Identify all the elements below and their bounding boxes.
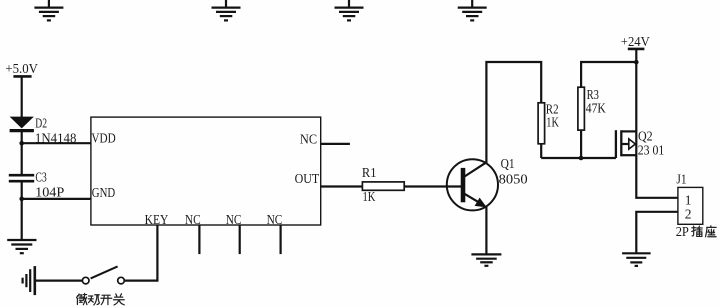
svg-text:1: 1: [685, 192, 692, 207]
wire R3 top: [581, 62, 636, 87]
svg-text:2: 2: [685, 206, 692, 221]
ground G6 (emitter): [471, 254, 501, 265]
svg-text:2P: 2P: [676, 224, 689, 239]
wire NC pin 3 (bottom): [280, 225, 282, 254]
wire +5V stem: [21, 76, 23, 117]
svg-text:GND: GND: [92, 185, 116, 200]
wire GND: [22, 198, 91, 200]
ground G7 (J1): [622, 253, 651, 266]
node gate junction: [579, 156, 584, 161]
svg-text:NC: NC: [185, 212, 201, 227]
node VDD junction: [19, 141, 24, 146]
ground GT1 (top): [34, 0, 63, 20]
label 2P插座: [676, 224, 716, 239]
wire +24V rail to J1 pin1: [636, 49, 678, 198]
svg-text:NC: NC: [267, 212, 283, 227]
power +5.0V: [5, 61, 38, 77]
wire OUT: [321, 185, 363, 187]
label 微动开关: [77, 294, 125, 305]
resistor R2 1K: [538, 102, 559, 144]
wire ground to switch: [35, 280, 83, 282]
svg-text:Q2: Q2: [638, 129, 653, 144]
wire emitter: [485, 207, 487, 254]
wire VDD: [22, 142, 91, 144]
svg-text:Q1: Q1: [501, 156, 515, 171]
svg-text:1K: 1K: [363, 189, 376, 204]
svg-text:J1: J1: [676, 172, 686, 187]
ground G5 (left branch): [7, 240, 36, 253]
wire collector: [486, 62, 541, 163]
wire R1 to base: [404, 185, 461, 187]
svg-text:23 01: 23 01: [638, 143, 665, 158]
diode D2 1N4148: [10, 116, 77, 146]
svg-text:VDD: VDD: [91, 130, 116, 145]
transistor Q2 2301: [616, 129, 664, 158]
ground GT2 (top): [212, 0, 241, 20]
wire diode to cap: [21, 131, 23, 174]
wire NC pin 1 (bottom): [198, 225, 200, 254]
ground GT3 (top): [335, 0, 364, 20]
wire cap to ground: [21, 182, 23, 239]
svg-text:+24V: +24V: [621, 34, 650, 49]
resistor R1 1K: [362, 165, 404, 204]
node GND junction: [19, 197, 24, 202]
svg-text:1K: 1K: [546, 115, 559, 130]
svg-text:R1: R1: [362, 165, 377, 180]
svg-text:KEY: KEY: [145, 212, 169, 227]
svg-text:8050: 8050: [499, 171, 528, 186]
IC U1: [91, 117, 321, 227]
ground G8 (switch, sideways): [23, 266, 35, 295]
svg-text:NC: NC: [226, 212, 242, 227]
wire J1 pin2 to ground: [636, 212, 678, 253]
transistor Q1 8050: [447, 156, 528, 210]
svg-text:47K: 47K: [586, 101, 606, 116]
svg-text:+5.0V: +5.0V: [5, 61, 38, 76]
wire gate node: [541, 157, 616, 159]
switch S1 (micro switch): [82, 266, 124, 284]
capacitor C3 104P: [9, 170, 65, 200]
wire R3 bottom: [580, 130, 582, 158]
wire switch to KEY: [124, 225, 157, 281]
power +24V: [621, 34, 650, 49]
node +24V junction: [634, 60, 639, 65]
svg-text:D2: D2: [35, 116, 47, 131]
wire R2 bottom: [540, 144, 542, 158]
wire NC stub (right): [321, 143, 350, 145]
svg-text:C3: C3: [35, 170, 46, 185]
connector J1 2P: [676, 172, 702, 225]
svg-text:NC: NC: [300, 132, 317, 147]
svg-text:OUT: OUT: [295, 171, 320, 186]
wire NC pin 2 (bottom): [239, 225, 241, 254]
resistor R3 47K: [578, 87, 606, 130]
ground GT4 (top): [458, 0, 487, 20]
